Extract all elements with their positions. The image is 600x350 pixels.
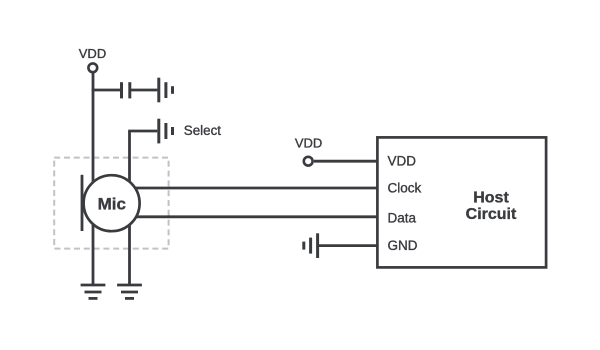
svg-text:Data: Data: [388, 210, 417, 225]
svg-text:Host: Host: [473, 190, 509, 207]
wire VDD vertical: [92, 73, 95, 285]
svg-text:Select: Select: [184, 123, 221, 138]
wire host GND: [318, 244, 378, 247]
ground (rotated) after C1: [159, 78, 173, 103]
label Host Circuit: [466, 190, 517, 224]
svg-text:Mic: Mic: [98, 194, 126, 213]
wire Select vertical: [128, 131, 131, 285]
wire to capacitor C1: [92, 89, 121, 92]
ground (rotated) at Select: [159, 119, 173, 144]
wire Select horizontal: [128, 130, 157, 133]
svg-text:VDD: VDD: [388, 153, 417, 168]
ground under VDD wire: [81, 285, 106, 298]
dashed mic package outline: [54, 158, 168, 249]
ground under Select wire: [117, 285, 142, 298]
microphone body: [84, 175, 140, 231]
wire C1 to ground: [130, 89, 158, 92]
wire Data: [118, 215, 378, 218]
svg-text:Circuit: Circuit: [466, 206, 517, 223]
microphone port bar: [81, 175, 84, 231]
svg-text:GND: GND: [388, 238, 418, 253]
ground (rotated) at host GND: [304, 233, 318, 258]
capacitor C1: [120, 82, 123, 98]
host circuit box: [377, 137, 546, 267]
wire host VDD: [314, 160, 378, 163]
VDD terminal (mic): [88, 63, 97, 72]
VDD terminal (host): [304, 157, 313, 166]
wire Clock: [118, 187, 378, 190]
svg-text:VDD: VDD: [79, 46, 106, 61]
svg-text:VDD: VDD: [295, 136, 322, 151]
svg-text:Clock: Clock: [388, 180, 422, 195]
